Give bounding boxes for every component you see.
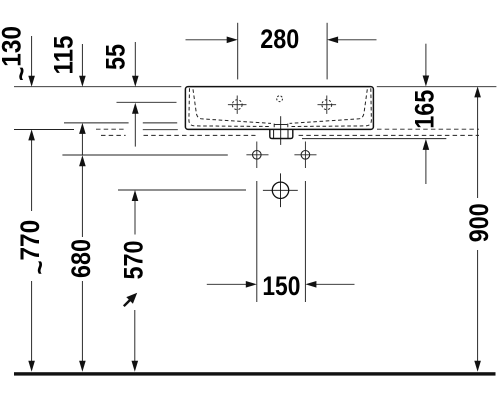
dimension 165 — [425, 44, 427, 184]
hidden dashed line upper right — [377, 128, 479, 130]
svg-text:570: 570 — [119, 241, 149, 280]
svg-text:~130: ~130 — [0, 26, 37, 81]
hidden dashed line upper left — [96, 128, 125, 130]
130-level line left — [14, 129, 74, 131]
right faucet hole — [318, 96, 337, 114]
dimension 150 — [207, 181, 355, 302]
680-level line — [62, 154, 227, 156]
hidden dashed line lower right — [299, 134, 479, 136]
right fixing hole — [294, 142, 316, 169]
drain hidden verticals — [273, 124, 275, 130]
rim reference line left — [14, 86, 181, 88]
basin interior hidden contour left wall — [189, 88, 372, 129]
siphon hole — [263, 173, 298, 207]
dimension ~770 column — [31, 140, 33, 362]
svg-text:165: 165 — [410, 90, 440, 129]
dimension 280 — [186, 23, 377, 80]
svg-text:115: 115 — [49, 36, 79, 75]
570-level line — [118, 189, 246, 191]
svg-text:680: 680 — [66, 239, 96, 278]
left faucet hole — [228, 96, 247, 114]
svg-text:55: 55 — [101, 44, 131, 70]
rim reference line right — [377, 86, 497, 88]
hidden dashed line lower mid — [144, 134, 256, 136]
115-level line right segment — [143, 122, 177, 124]
washbasin outline — [185, 87, 373, 130]
basin interior hidden contour right wall — [290, 88, 371, 126]
dimension 55 — [134, 42, 136, 77]
overflow hole — [277, 96, 283, 102]
adjustable indicator arrow — [124, 293, 137, 306]
dimension 115 — [81, 44, 83, 77]
drain fitting — [270, 116, 293, 145]
floor line — [14, 372, 496, 375]
hidden dashed line lower left — [101, 134, 126, 136]
dimension 680 column — [81, 133, 83, 362]
svg-text:~770: ~770 — [15, 220, 55, 275]
55-level line — [117, 101, 177, 103]
dimension ~130 — [31, 36, 33, 77]
130-level line right segment — [143, 129, 178, 131]
165-level line — [302, 138, 446, 140]
svg-text:150: 150 — [262, 271, 300, 301]
dimension 570 column — [134, 114, 137, 362]
left fixing hole — [246, 142, 268, 169]
svg-text:280: 280 — [260, 24, 299, 54]
dimension 900 — [477, 97, 479, 362]
115-level line left — [64, 122, 129, 124]
svg-text:900: 900 — [464, 203, 494, 242]
